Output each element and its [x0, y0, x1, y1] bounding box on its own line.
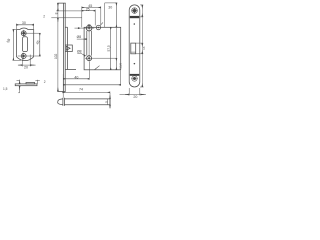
dim 30 extension lines	[17, 24, 34, 29]
faceplate chain dim line	[141, 5, 143, 87]
body top circle tab	[88, 25, 90, 27]
svg-text:2: 2	[43, 14, 45, 18]
top right dim 30	[105, 2, 118, 4]
faceplate top screw diamond	[132, 8, 137, 13]
body bottom circle cross	[85, 55, 117, 61]
strike plate cutout	[22, 37, 27, 52]
dim 20 line	[18, 64, 36, 66]
top dim 25	[82, 10, 95, 12]
strike plate outline	[17, 28, 34, 61]
svg-text:20: 20	[24, 65, 28, 69]
faceplate dim 20	[120, 94, 147, 96]
faceplate outline	[129, 5, 140, 87]
svg-text:16: 16	[142, 46, 146, 50]
label O8 leader 2	[77, 53, 85, 56]
strike side right tick	[35, 80, 39, 84]
strike plate bottom screw cross	[18, 53, 35, 60]
faceplate dot top	[134, 23, 136, 25]
faceplate top bar	[130, 16, 139, 18]
strike side dim line tail	[17, 80, 20, 93]
faceplate latch opening	[131, 43, 136, 54]
dim 30 line	[17, 24, 34, 26]
bottom dims extensions	[63, 62, 120, 98]
strike side view bar	[15, 84, 37, 86]
slot centerline	[88, 25, 90, 56]
body diagonal	[95, 66, 100, 70]
right dim 57	[110, 27, 112, 70]
dim 58 extension	[13, 30, 21, 61]
strike plate top screw hole	[21, 31, 26, 36]
faceplate dim 20 extensions	[129, 88, 140, 95]
svg-text:58: 58	[6, 38, 11, 43]
bottom view faceplate profile	[63, 98, 65, 106]
label O8 leader 1	[77, 38, 86, 40]
svg-text:30: 30	[108, 6, 112, 10]
bottom dim 74a	[63, 84, 120, 86]
body top circle cross	[75, 27, 95, 29]
svg-text:5: 5	[105, 101, 109, 103]
chain dim extensions	[136, 5, 144, 87]
dot on line	[78, 27, 80, 29]
bottom view nose	[58, 99, 63, 105]
svg-text:20: 20	[133, 95, 137, 99]
long dim line left of strip	[57, 3, 59, 91]
strike plate bottom screw center	[23, 55, 25, 57]
body right circle	[96, 25, 100, 29]
faceplate top screw	[132, 8, 138, 14]
body bottom circle	[87, 56, 92, 61]
svg-text:102: 102	[54, 53, 58, 59]
strike plate bottom screw hole	[21, 54, 26, 59]
svg-text:2: 2	[44, 80, 46, 84]
body side edge	[65, 27, 76, 69]
svg-text:25: 25	[86, 7, 90, 11]
svg-text:1,5: 1,5	[3, 87, 8, 91]
top dims extensions	[82, 3, 105, 27]
body top circle	[86, 25, 92, 31]
svg-text:74: 74	[79, 87, 83, 91]
chain dim arrows	[141, 5, 143, 8]
strike side view lip	[26, 83, 35, 84]
chain dim arrows	[57, 7, 59, 11]
text labels	[3, 4, 146, 103]
right dim 13.5	[115, 58, 117, 70]
strike side thickness dim	[19, 80, 21, 84]
dim 20 extension	[22, 53, 30, 67]
strike plate top screw diamond	[22, 31, 26, 35]
dim 46 line right	[39, 33, 41, 56]
faceplate bottom screw center	[133, 77, 136, 80]
projection lines	[51, 11, 82, 18]
faceplate side strip	[57, 3, 65, 91]
svg-text:57,5: 57,5	[107, 45, 111, 51]
svg-text:8: 8	[55, 12, 59, 14]
dim 46 extension	[21, 33, 41, 56]
thickness dim 5	[109, 93, 111, 108]
spindle slot	[87, 31, 92, 56]
bottom dim 40	[63, 78, 89, 80]
faceplate bottom bar	[130, 74, 139, 76]
dim 58 line left	[12, 30, 14, 61]
faceplate bottom screw cross	[131, 78, 138, 80]
faceplate dot bottom	[134, 63, 136, 65]
bottom dim 74b	[63, 91, 110, 93]
lock body rectangle	[84, 27, 121, 70]
svg-text:40: 40	[74, 75, 78, 79]
top dim 45	[82, 7, 101, 9]
bottom view divider	[107, 99, 109, 105]
latch tongue side	[65, 45, 72, 52]
svg-text:Ø8: Ø8	[77, 35, 82, 39]
latch opening inner line	[131, 51, 136, 53]
faceplate bottom screw	[132, 76, 137, 81]
latch bevel	[66, 46, 70, 50]
svg-text:13,5: 13,5	[118, 63, 122, 69]
svg-text:Ø8: Ø8	[77, 50, 82, 54]
svg-text:30: 30	[22, 21, 26, 25]
bottom view bar	[64, 99, 110, 105]
body right circle leader	[100, 22, 103, 25]
